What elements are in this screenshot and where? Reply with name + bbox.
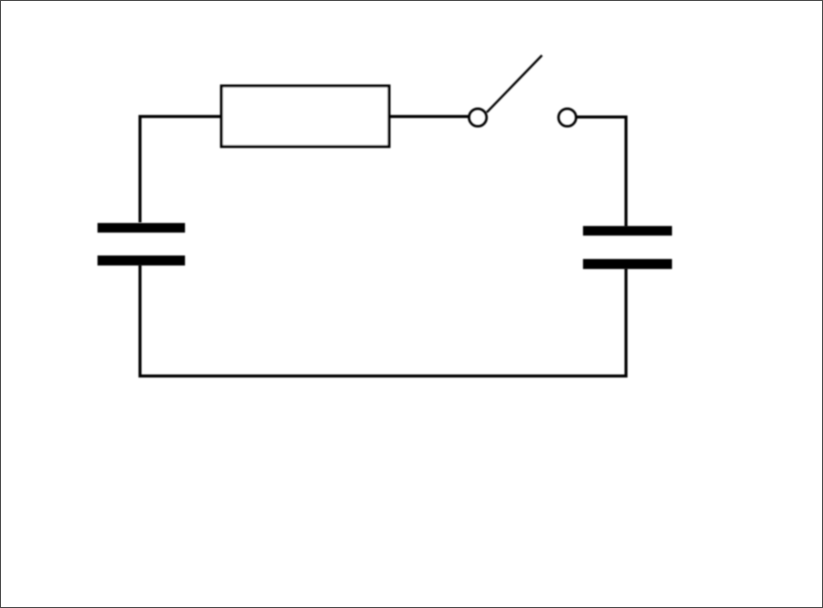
capacitor C2 bottom plate — [583, 259, 672, 269]
switch S1 pole contact — [469, 109, 487, 127]
wire resistor to switch pole — [389, 115, 468, 118]
switch S1 lever — [487, 55, 542, 112]
capacitor C2 top plate — [583, 226, 672, 236]
wire bottom loop — [140, 265, 626, 377]
wire switch to capacitor C2 — [577, 117, 627, 227]
wire node A to resistor left — [140, 117, 222, 223]
capacitor C1 top plate — [98, 223, 186, 233]
switch S1 throw contact — [559, 109, 577, 127]
resistor R1 — [222, 86, 390, 147]
capacitor C1 bottom plate — [98, 256, 186, 266]
